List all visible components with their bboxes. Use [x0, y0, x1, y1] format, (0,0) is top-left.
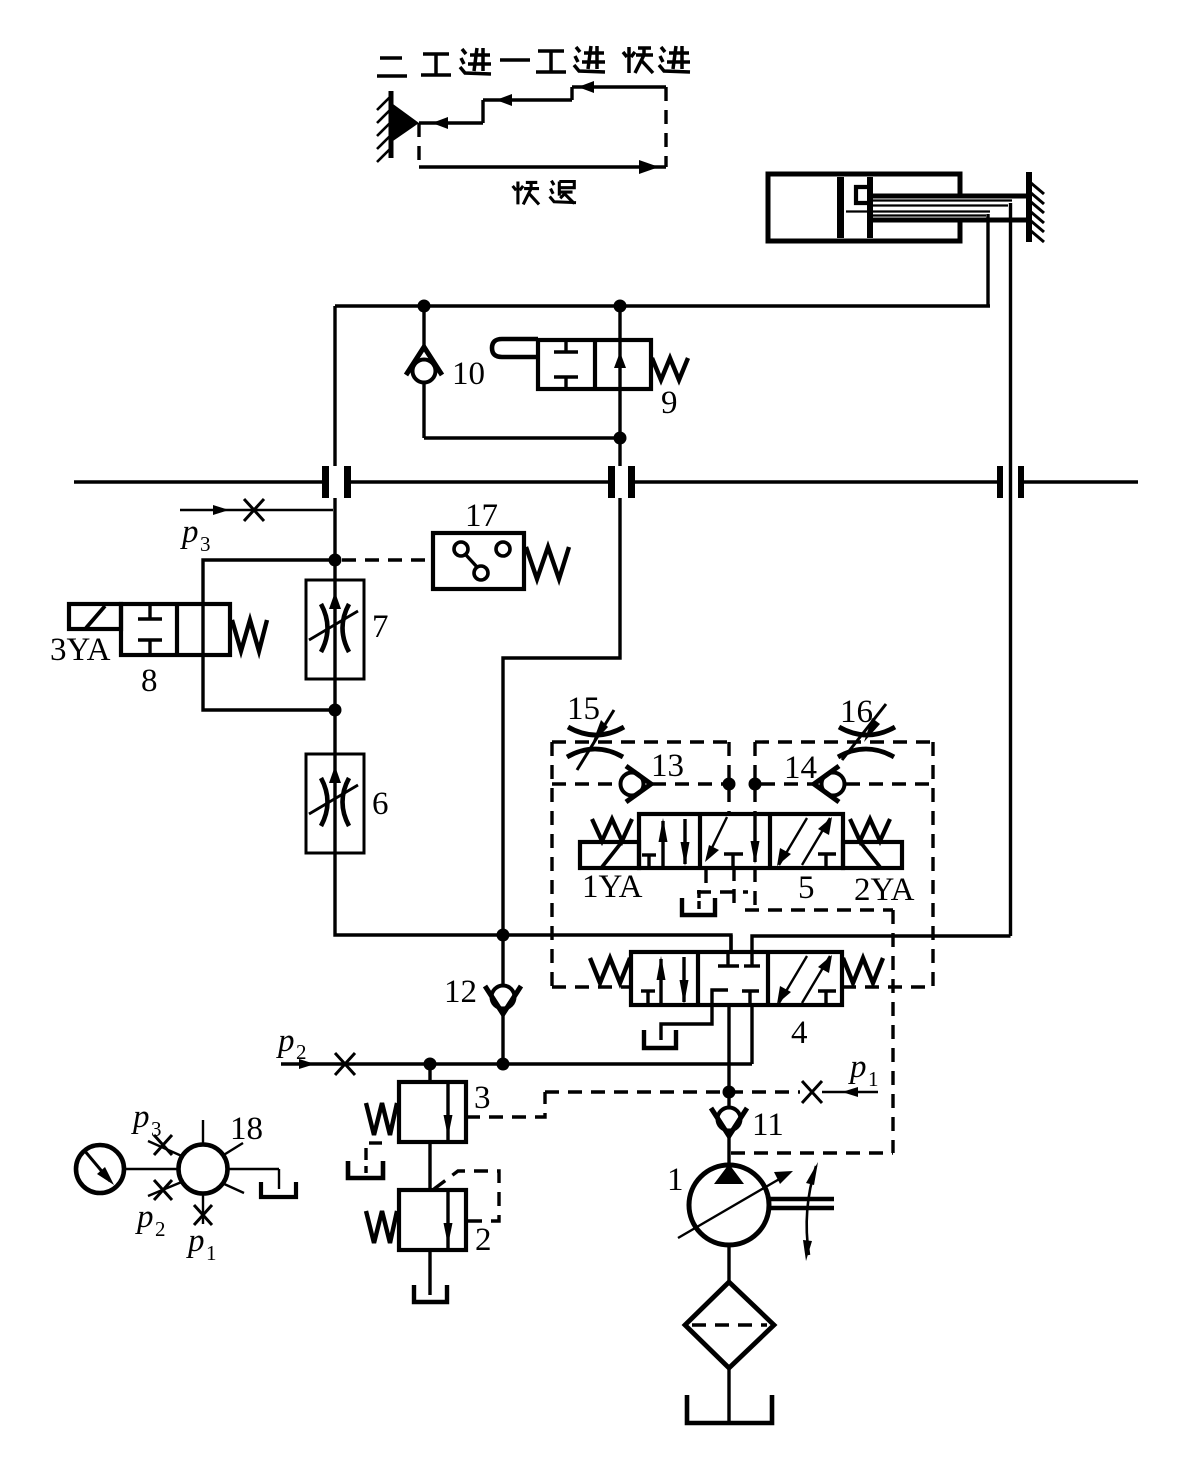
valve 2 remote pilot dashed loop [434, 1171, 499, 1221]
svg-text:18: 18 [230, 1111, 263, 1147]
svg-text:2: 2 [296, 1040, 307, 1064]
label 工 [421, 54, 451, 75]
flow control valve 7 [306, 580, 364, 679]
p3 tap cross at selector [154, 1135, 172, 1155]
pressure switch 17 [433, 533, 569, 589]
label 进 [659, 46, 690, 72]
wire left vertical x335 upper [333, 306, 336, 466]
main valve 4 (3-pos hydraulic valve) [590, 952, 883, 1005]
fast approach segment (快进) [572, 81, 666, 93]
p3 test line [180, 499, 333, 521]
svg-text:2YA: 2YA [854, 872, 915, 908]
valve 3 external pilot dashed to p1 line [466, 1092, 545, 1117]
svg-text:9: 9 [661, 385, 678, 421]
filter [685, 1282, 774, 1368]
p1 tap cross at selector [194, 1205, 212, 1225]
p2 tap cross at selector [154, 1180, 172, 1200]
svg-text:3: 3 [151, 1117, 162, 1141]
node on line x503 y935 [497, 929, 510, 942]
node at check valve 10 top [418, 300, 431, 313]
wire valve 8 bottom [203, 655, 335, 710]
svg-text:3YA: 3YA [50, 632, 111, 668]
pilot valve 5 (3-pos solenoid valve) [580, 814, 902, 868]
valve 5 drain stubs and tank [682, 868, 748, 915]
svg-text:10: 10 [452, 356, 485, 392]
valve 4 drain to tank [644, 1005, 712, 1048]
svg-text:p: p [131, 1099, 150, 1135]
svg-text:p: p [180, 514, 199, 550]
label 快 [623, 47, 653, 73]
swivel joint bars pair 1 [322, 466, 351, 498]
svg-text:1: 1 [206, 1241, 217, 1265]
wire valve 9 branch down-left to x503 [503, 498, 620, 935]
dashed right drop of motion diagram [664, 87, 667, 167]
label 工 [536, 51, 566, 72]
svg-text:16: 16 [840, 694, 873, 730]
sequence valve 3 [366, 1064, 466, 1142]
svg-text:4: 4 [791, 1015, 808, 1051]
p1 dashed control line [545, 1081, 878, 1103]
supply lines into valve 4 [731, 935, 1011, 952]
main tank [687, 1395, 772, 1423]
wire from check 10 to valve 9 bottom node [424, 436, 620, 439]
label p2 selector [135, 1199, 166, 1241]
svg-text:2: 2 [475, 1222, 492, 1258]
throttle 15 [567, 710, 624, 770]
cylinder body [768, 174, 960, 241]
valve 4 B port down to p2 line [750, 1005, 753, 1064]
svg-text:1: 1 [667, 1162, 684, 1198]
p2 line [281, 1053, 752, 1075]
gauge to selector wire [125, 1168, 179, 1170]
hollow piston rod top edge [873, 194, 1029, 199]
check valve 12 [485, 935, 521, 1064]
svg-text:p: p [186, 1223, 205, 1259]
work-feed step line (二工进 segment) [419, 117, 483, 129]
node at valve 9 top [614, 300, 627, 313]
top main line A (rod side) [335, 304, 990, 307]
svg-text:3: 3 [200, 532, 211, 556]
label p2 line [276, 1023, 307, 1064]
svg-text:15: 15 [567, 691, 600, 727]
suction pipe into tank [727, 1368, 730, 1421]
node pilot right [749, 778, 762, 791]
valve 3 spring drain tank [348, 1143, 383, 1178]
wire valve 9 bottom [618, 389, 621, 466]
pipe end notch in piston [856, 187, 868, 203]
pilot line with check valve 13 [552, 766, 723, 802]
node under valve 9 [614, 432, 627, 445]
step up 2 [570, 87, 573, 100]
check valve 11 [711, 1108, 747, 1167]
wire from channel 1 down to valve 4 side [1009, 203, 1012, 936]
wall anchor at rod end [1026, 172, 1044, 242]
check valve 10 [406, 306, 442, 438]
wire left vertical x335 through throttles 7 and 6 [335, 498, 731, 952]
label 一 [500, 58, 530, 62]
node at throttle 7 top [329, 554, 342, 567]
pilot line with check valve 14 [761, 766, 933, 802]
variable displacement pump 1 [678, 1162, 834, 1261]
label 快 (return) [513, 182, 539, 205]
svg-text:p: p [276, 1023, 295, 1059]
dashed block boundary right [755, 742, 933, 987]
node pump line / p1 [723, 1086, 736, 1099]
cylinder piston [837, 177, 844, 238]
wire valve 8 top [203, 560, 335, 604]
svg-text:1YA: 1YA [582, 869, 643, 905]
machine slide boundary line [74, 480, 1138, 483]
svg-text:p: p [848, 1049, 867, 1085]
valve 8 solenoid shut-off valve [69, 604, 267, 655]
inner pipe channel 2 wall [846, 210, 990, 212]
svg-text:7: 7 [372, 609, 389, 645]
valve 9 two-position valve [492, 306, 688, 389]
flow control valve 6 [306, 754, 364, 853]
pilot dashed line to pressure switch 17 [342, 558, 431, 561]
svg-text:12: 12 [444, 974, 477, 1010]
svg-text:5: 5 [798, 870, 815, 906]
throttle 16 [838, 704, 895, 760]
swivel joint bars pair 3 [997, 466, 1024, 498]
inner pipe channel 1 walls [873, 199, 1012, 201]
swivel joint bars pair 2 [608, 466, 635, 498]
label p1 line [848, 1049, 879, 1091]
pump suction line [727, 1245, 730, 1284]
node at throttle 7 bottom [329, 704, 342, 717]
svg-text:3: 3 [474, 1080, 491, 1116]
svg-text:6: 6 [372, 786, 389, 822]
label p3 selector [131, 1099, 162, 1141]
label p1 selector [186, 1223, 217, 1265]
pointer triangle [393, 104, 419, 141]
first work feed segment (一工进) [483, 94, 572, 106]
pressure gauge [76, 1145, 124, 1193]
wire from channel 2 down to top main line [986, 214, 989, 306]
svg-text:p: p [135, 1199, 154, 1235]
pilot drops to valve 5 [729, 742, 755, 814]
label p3 top [180, 514, 211, 556]
selector drain tank [261, 1169, 296, 1197]
valve 4 pressure port down to pump [727, 1005, 730, 1107]
label 进 [574, 46, 605, 72]
svg-text:11: 11 [752, 1107, 784, 1143]
valve 2 outlet tank [414, 1250, 447, 1302]
node p2/check12 [497, 1058, 510, 1071]
node p2/valve3 [424, 1058, 437, 1071]
svg-text:14: 14 [784, 750, 817, 786]
step up 1 [481, 100, 484, 123]
gauge selector 18 [148, 1120, 279, 1224]
svg-text:17: 17 [465, 498, 498, 534]
svg-text:8: 8 [141, 663, 158, 699]
dashed left drop of motion diagram [417, 123, 420, 167]
svg-text:13: 13 [651, 748, 684, 784]
node pilot left [723, 778, 736, 791]
svg-text:2: 2 [155, 1217, 166, 1241]
relief valve 2 [366, 1142, 466, 1250]
label 进 [460, 48, 491, 74]
hollow piston rod bottom edge [873, 218, 1029, 223]
rod root wall [867, 177, 873, 238]
dashed block boundary left [552, 742, 729, 987]
label 二 [377, 58, 407, 76]
svg-text:1: 1 [868, 1067, 879, 1091]
label 退 [550, 181, 576, 204]
wall anchor of motion diagram [377, 91, 391, 162]
pilot drain dashed to pump line [731, 868, 893, 1153]
fast return line (快退) [419, 160, 666, 174]
